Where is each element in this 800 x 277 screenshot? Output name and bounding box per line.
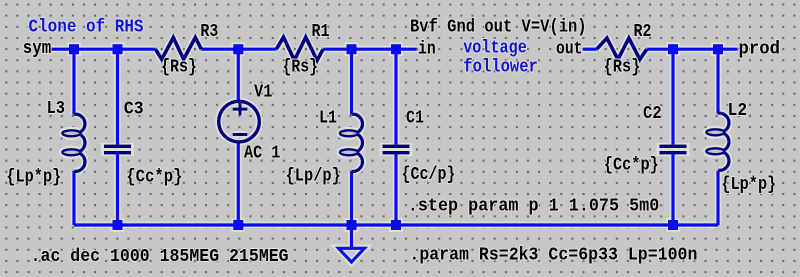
wire L1 column [350, 49, 353, 225]
wire sym to R3 [52, 48, 156, 51]
svg-text:R2: R2 [634, 22, 652, 42]
svg-text:out: out [556, 39, 583, 59]
wire L2 column [716, 49, 719, 225]
junction sym/L3 top [69, 44, 79, 54]
svg-text:C1: C1 [406, 108, 424, 128]
svg-text:{Rs}: {Rs} [283, 58, 319, 78]
inductor L3 [62, 114, 85, 171]
wire V1 column [237, 49, 240, 225]
svg-text:R1: R1 [312, 22, 330, 42]
svg-text:L1: L1 [319, 108, 337, 128]
junction C3 bottom [113, 220, 123, 230]
wire C2 column [671, 49, 674, 225]
svg-text:Clone of RHS: Clone of RHS [29, 17, 144, 37]
svg-text:C3: C3 [124, 100, 144, 120]
capacitor C3 [104, 145, 131, 155]
wire L3 column [72, 49, 75, 225]
voltage source V1 [219, 101, 260, 142]
svg-text:V1: V1 [254, 83, 273, 103]
wire C3 column [116, 49, 119, 225]
svg-text:C2: C2 [643, 104, 662, 124]
junction V1 bottom [233, 220, 243, 230]
svg-text:{Cc/p}: {Cc/p} [402, 165, 456, 185]
wire R3 to R1 [201, 48, 276, 51]
svg-text:.step param p 1 1.075 5m0: .step param p 1 1.075 5m0 [408, 197, 660, 217]
svg-text:{Lp*p}: {Lp*p} [721, 175, 776, 195]
svg-text:Bvf Gnd out V=V(in): Bvf Gnd out V=V(in) [410, 18, 587, 38]
svg-text:{Lp*p}: {Lp*p} [6, 168, 61, 188]
svg-text:{Cc*p}: {Cc*p} [604, 156, 659, 176]
junction C1 top [391, 44, 401, 54]
svg-text:.ac dec 1000 185MEG 215MEG: .ac dec 1000 185MEG 215MEG [31, 247, 289, 267]
inductor L1 [340, 114, 363, 171]
svg-text:prod: prod [739, 39, 781, 59]
svg-text:AC 1: AC 1 [244, 144, 280, 164]
svg-text:follower: follower [463, 58, 538, 78]
resistor R3 [156, 38, 202, 60]
svg-text:{Lp/p}: {Lp/p} [286, 167, 341, 187]
svg-text:in: in [418, 39, 436, 59]
junction L1 top [347, 44, 357, 54]
ground [339, 230, 365, 262]
svg-text:L3: L3 [47, 99, 65, 119]
capacitor C2 [660, 145, 687, 155]
svg-text:voltage: voltage [463, 39, 527, 59]
wire C1 column [394, 49, 397, 225]
svg-text:R3: R3 [200, 22, 218, 42]
inductor L2 [706, 113, 729, 170]
wire node out to R2 [583, 48, 597, 51]
junction gnd bottom [347, 220, 357, 230]
svg-text:{Rs}: {Rs} [604, 58, 641, 78]
junction V1 top [233, 44, 243, 54]
svg-text:L2: L2 [728, 101, 748, 121]
resistor R2 [597, 38, 647, 59]
svg-text:{Cc*p}: {Cc*p} [126, 168, 182, 188]
svg-text:sym: sym [23, 39, 52, 59]
svg-text:{Rs}: {Rs} [161, 58, 197, 78]
wire R1 to node in [323, 48, 416, 51]
wire R2 to node prod [647, 48, 738, 51]
wire bottom rail [74, 223, 718, 226]
junction C2 top [668, 44, 678, 54]
junction C2 bottom [668, 220, 678, 230]
capacitor C1 [383, 145, 410, 155]
junction C3 top [113, 44, 123, 54]
junction L2 top [713, 44, 723, 54]
junction C1 bottom [391, 220, 401, 230]
svg-text:.param Rs=2k3 Cc=6p33 Lp=100n: .param Rs=2k3 Cc=6p33 Lp=100n [409, 246, 697, 266]
resistor R1 [276, 37, 323, 60]
